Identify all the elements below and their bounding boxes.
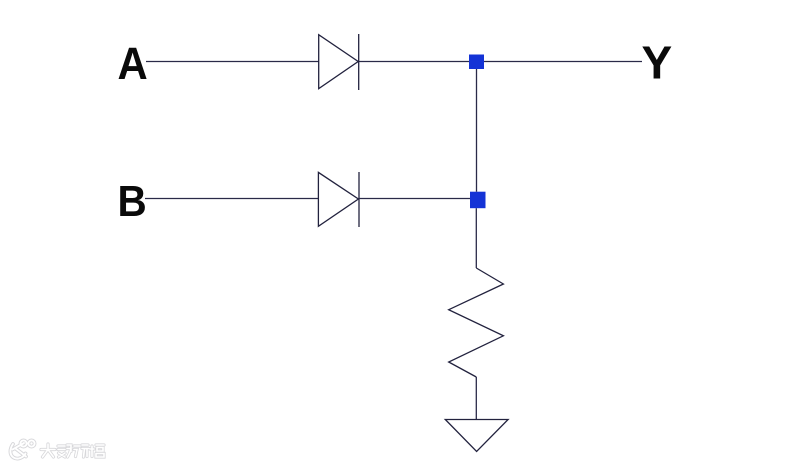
node B	[118, 176, 147, 225]
wire D1 cathode to node 1	[359, 61, 469, 63]
diode D1	[319, 34, 359, 90]
wire D2 cathode to node 2	[359, 198, 470, 200]
watermark logo	[10, 440, 34, 458]
junction node 2	[470, 192, 486, 209]
watermark text	[41, 444, 104, 457]
wire B to D2 anode	[145, 198, 319, 200]
node A	[118, 39, 148, 89]
node Y	[642, 37, 673, 89]
svg-text:Y: Y	[642, 37, 673, 89]
resistor R1	[449, 268, 504, 377]
junction node 1	[469, 55, 484, 70]
svg-text:B: B	[118, 176, 147, 225]
wire A to D1 anode	[146, 61, 319, 63]
wire node 1 to node 2 (vertical)	[476, 69, 478, 192]
diode D2	[318, 172, 359, 227]
wire node 2 to resistor top	[475, 208, 477, 268]
ground	[445, 420, 508, 452]
wire node 1 to Y	[484, 61, 642, 63]
svg-text:A: A	[118, 39, 148, 89]
wire resistor bottom to ground	[475, 377, 477, 420]
